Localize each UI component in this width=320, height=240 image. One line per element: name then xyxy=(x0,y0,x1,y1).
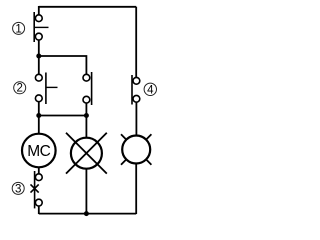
wire bottom rail xyxy=(39,213,136,215)
wire PB2 bottom to junction B xyxy=(38,102,40,116)
wire aux contact bottom to junction C xyxy=(85,103,87,115)
wire top rail right corner down to contact 4 xyxy=(135,7,137,78)
wire PB1 bottom to junction A xyxy=(38,40,40,56)
wire junction C down to lamp PL1 xyxy=(85,116,87,139)
wire junction A down to PB2 xyxy=(38,56,40,75)
auxiliary contact MC-a (self holding, NO) xyxy=(83,72,92,105)
wire top rail xyxy=(39,6,136,8)
wire coil MC to thermal contact xyxy=(38,167,40,174)
wire junction B down to coil MC xyxy=(38,116,40,135)
label circled 3 xyxy=(12,182,24,195)
wire thermal contact to bottom rail xyxy=(38,206,40,214)
svg-text:MC: MC xyxy=(27,143,50,160)
label circled 2 xyxy=(14,82,26,95)
svg-text:2: 2 xyxy=(16,83,22,95)
node D junction dot bottom xyxy=(84,211,89,216)
wire contact 4 down to lamp PL2 xyxy=(135,102,137,136)
lamp PL2 (circle with outward rays) xyxy=(121,134,151,164)
svg-text:4: 4 xyxy=(147,84,154,96)
wire lamp PL2 to bottom rail xyxy=(135,164,137,215)
lamp PL1 (circle with cross) xyxy=(66,133,107,174)
wire from top rail down to pushbutton PB1 xyxy=(38,6,40,15)
wire lamp PL1 to bottom rail xyxy=(85,169,87,214)
pushbutton PB2 (start, NO a-contact) xyxy=(35,73,57,105)
node B junction dot xyxy=(36,113,41,118)
svg-text:1: 1 xyxy=(15,23,21,35)
pushbutton PB1 (stop, NC b-contact) xyxy=(34,12,48,42)
node A junction dot xyxy=(36,54,41,59)
node C junction dot xyxy=(84,113,89,118)
label circled 1 xyxy=(13,22,25,35)
thermal relay contact THR (NC with x, manual reset) xyxy=(31,171,43,208)
svg-text:3: 3 xyxy=(15,183,21,195)
coil MC (magnetic contactor) xyxy=(22,134,56,168)
wire link junction B to junction C xyxy=(39,115,87,117)
contact MC-b (NC b-contact) xyxy=(132,75,140,105)
wire branch to auxiliary contact xyxy=(39,56,87,75)
label circled 4 xyxy=(144,83,156,96)
